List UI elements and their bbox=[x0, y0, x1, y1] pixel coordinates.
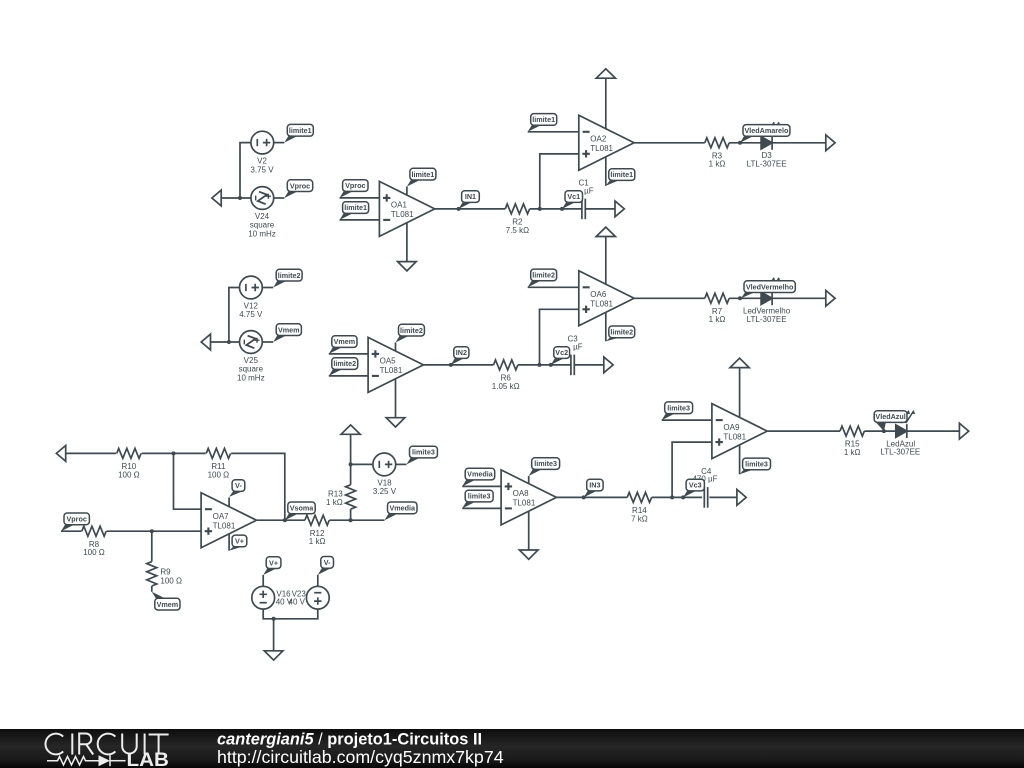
junction node R12/R13 bbox=[349, 518, 353, 522]
ground at OA5 bbox=[386, 418, 405, 427]
svg-text:Vc2: Vc2 bbox=[555, 348, 568, 357]
svg-text:V12: V12 bbox=[244, 302, 259, 311]
wire up to OA2 + input bbox=[540, 154, 579, 209]
wire R10 to R11 bbox=[142, 452, 206, 454]
wire V12 to limite2 flag bbox=[262, 287, 273, 289]
svg-text:100 Ω: 100 Ω bbox=[160, 577, 182, 586]
junction node R8/R9/OA7+ bbox=[150, 529, 154, 533]
svg-text:OA2: OA2 bbox=[590, 135, 607, 144]
ground at OA8 bbox=[519, 550, 538, 559]
wire R3 to D3 bbox=[729, 142, 761, 144]
wire from input port to sources junction (net Vproc/limite1 feed) bbox=[221, 197, 251, 199]
op-amp OA8 TL081 bbox=[501, 470, 556, 525]
net flag VledAzul bbox=[874, 411, 907, 431]
wire OA7 V+ power pin bbox=[228, 534, 230, 551]
svg-text:limite1: limite1 bbox=[412, 170, 435, 179]
capacitor C4 plates bbox=[704, 487, 707, 508]
svg-text:3.25 V: 3.25 V bbox=[373, 487, 397, 496]
svg-text:1.05 kΩ: 1.05 kΩ bbox=[492, 382, 520, 391]
square source V25 10 mHz bbox=[240, 331, 263, 354]
wire OA8 V+ pin bbox=[528, 476, 530, 483]
resistor R12 1 kOhm bbox=[305, 515, 329, 546]
svg-text:limite3: limite3 bbox=[468, 492, 491, 501]
wire up to OA9 + input bbox=[672, 442, 712, 497]
svg-text:limite3: limite3 bbox=[534, 459, 557, 468]
svg-text:Vproc: Vproc bbox=[345, 181, 365, 190]
CircuitLab logo resistor-diode glyph bbox=[47, 755, 126, 766]
net flag Vproc at OA1 + input bbox=[340, 180, 368, 198]
svg-text:R9: R9 bbox=[160, 567, 171, 576]
wire OA5 V- pin to ground bbox=[395, 379, 397, 418]
svg-text:40 V: 40 V bbox=[289, 598, 306, 607]
svg-text:VledAzul: VledAzul bbox=[875, 412, 905, 421]
VCC arrow at OA2 bbox=[596, 69, 615, 130]
svg-text:7 kΩ: 7 kΩ bbox=[631, 514, 648, 523]
svg-text:Vmedia: Vmedia bbox=[467, 470, 494, 479]
svg-text:µF: µF bbox=[584, 187, 594, 196]
svg-text:TL081: TL081 bbox=[590, 300, 613, 309]
svg-text:IN3: IN3 bbox=[589, 481, 600, 490]
net flag V- at OA7 top power pin bbox=[229, 480, 245, 497]
svg-text:OA5: OA5 bbox=[380, 357, 397, 366]
svg-text:Vmem: Vmem bbox=[278, 325, 300, 334]
svg-text:Vmem: Vmem bbox=[157, 600, 179, 609]
label V2 3.75 V bbox=[250, 157, 274, 175]
svg-text:OA9: OA9 bbox=[723, 423, 740, 432]
wire Vproc flag to R8 bbox=[61, 530, 82, 532]
voltage source V12 4.75 V bbox=[240, 276, 263, 299]
output port arrow after LedVermelho bbox=[826, 290, 835, 306]
wire OA7 V- power pin bbox=[228, 498, 230, 507]
wire OA2 V- pin bbox=[605, 157, 607, 186]
net flag limite2 at OA5 power pin bbox=[396, 324, 425, 342]
svg-text:Vsoma: Vsoma bbox=[290, 504, 315, 513]
resistor R11 100 Ohm bbox=[206, 448, 230, 479]
label V16 40 V bbox=[276, 589, 293, 606]
svg-text:cantergiani5 / projeto1-Circui: cantergiani5 / projeto1-Circuitos II bbox=[217, 730, 482, 748]
svg-text:limite1: limite1 bbox=[289, 126, 312, 135]
net flag V+ at V16 bbox=[263, 557, 281, 575]
ground at V16/V23 bbox=[264, 651, 283, 660]
wire R6 to C3 bbox=[518, 364, 571, 366]
svg-text:OA1: OA1 bbox=[391, 201, 408, 210]
net flag limite2 at OA6 power pin bbox=[606, 326, 635, 341]
svg-text:1 kΩ: 1 kΩ bbox=[844, 448, 861, 457]
junction node at VledAmarelo tap bbox=[738, 141, 742, 145]
CircuitLab logo wordmark CIRCUIT bbox=[45, 734, 168, 755]
wire OA1 V- pin to ground bbox=[406, 223, 408, 261]
wire R2 to C1 bbox=[530, 208, 582, 210]
VCC arrow above R13 bbox=[341, 425, 360, 465]
svg-text:limite1: limite1 bbox=[532, 115, 555, 124]
svg-text:VledAmarelo: VledAmarelo bbox=[744, 126, 789, 135]
voltage source V23 40 V bbox=[306, 586, 329, 609]
resistor R14 7 kOhm bbox=[627, 492, 651, 523]
net flag Vc3 bbox=[681, 479, 704, 499]
svg-text:TL081: TL081 bbox=[391, 210, 414, 219]
op-amp OA7 TL081 bbox=[201, 493, 256, 548]
wire R7 to LedVermelho bbox=[729, 297, 761, 299]
wire R8 to OA7 + input bbox=[107, 530, 202, 532]
net flag VledVermelho bbox=[741, 281, 795, 299]
svg-text:OA6: OA6 bbox=[590, 290, 607, 299]
svg-text:TL081: TL081 bbox=[213, 521, 236, 530]
svg-text:100 Ω: 100 Ω bbox=[83, 548, 105, 557]
net flag IN1 on OA1 output bbox=[457, 191, 480, 211]
wire D3 to output port bbox=[772, 142, 826, 144]
wire V25 to Vmem flag bbox=[262, 341, 273, 343]
net flag Vc1 bbox=[560, 191, 583, 211]
net flag Vmedia at OA8 + input bbox=[462, 468, 495, 486]
wire LedAzul to output port bbox=[907, 430, 960, 432]
wire junction up to V2 bbox=[240, 143, 251, 198]
wire R13 top lead bbox=[350, 464, 352, 484]
capacitor C1 1 uF bbox=[578, 179, 593, 220]
wire LedVermelho to output port bbox=[772, 297, 826, 299]
svg-text:100 Ω: 100 Ω bbox=[208, 470, 230, 479]
label V25 square 10 mHz bbox=[237, 356, 265, 382]
wire OA7 output to R12 bbox=[256, 519, 305, 521]
wire limite3 to OA9 - bbox=[662, 419, 712, 421]
wire R13 bottom lead bbox=[350, 509, 352, 520]
wire junction down to R9 bbox=[151, 531, 153, 561]
capacitor C3 1 uF bbox=[567, 335, 582, 376]
op-amp OA2 TL081 bbox=[579, 115, 634, 170]
CircuitLab logo wordmark LAB bbox=[127, 750, 170, 768]
VCC arrow at OA9 bbox=[730, 358, 749, 417]
junction node R2/C1/OA2+ bbox=[538, 207, 542, 211]
wire OA5 V+ pin bbox=[395, 343, 397, 351]
wire OA1 V+ pin bbox=[406, 187, 408, 195]
svg-text:Vproc: Vproc bbox=[290, 181, 310, 190]
wire limite3 to OA8 - bbox=[462, 507, 501, 509]
junction node at V2/V24 common bbox=[238, 196, 242, 200]
wire V18 to limite3 flag bbox=[396, 463, 407, 465]
resistor R9 100 Ohm bbox=[147, 562, 182, 586]
svg-text:4.75 V: 4.75 V bbox=[239, 310, 263, 319]
resistor R13 1 kOhm bbox=[326, 485, 356, 509]
output port arrow after C3 bbox=[604, 357, 613, 373]
footer url bbox=[217, 747, 504, 767]
net flag limite1 at OA1 - input bbox=[340, 202, 369, 220]
wire junction up to V12 bbox=[229, 288, 240, 343]
svg-text:3.75 V: 3.75 V bbox=[250, 165, 274, 174]
junction node R14/C4/OA9+ bbox=[670, 495, 674, 499]
svg-text:Vmedia: Vmedia bbox=[389, 504, 416, 513]
labels LedAzul LTL-307EE bbox=[880, 439, 920, 456]
svg-text:limite2: limite2 bbox=[610, 328, 633, 337]
wire limite2 to OA5 - bbox=[329, 375, 368, 377]
wire OA8 V- pin to ground bbox=[528, 512, 530, 550]
wire Vmedia to OA8 + bbox=[462, 485, 501, 487]
resistor R10 100 Ohm bbox=[117, 448, 141, 479]
junction node at VledVermelho tap bbox=[738, 296, 742, 300]
voltage source V18 3.25 V bbox=[373, 453, 396, 476]
net flag Vmem below R9 bbox=[152, 592, 180, 610]
svg-text:LTL-307EE: LTL-307EE bbox=[880, 448, 920, 457]
wire R14 to C4 bbox=[652, 496, 703, 498]
junction node R10/R11/OA7- bbox=[172, 451, 176, 455]
net flag limite1 at OA2 power pin bbox=[606, 169, 635, 186]
net flag Vc2 bbox=[549, 347, 570, 367]
resistor R7 1 kOhm bbox=[705, 293, 729, 324]
net flag V- at V23 bbox=[318, 557, 334, 575]
wire OA8 output to R14 bbox=[556, 496, 627, 498]
wire from input port to sources junction row2 bbox=[211, 341, 240, 343]
wire junction down to OA7 - input bbox=[174, 453, 202, 509]
input port arrow row3 (left) bbox=[56, 446, 65, 462]
svg-text:TL081: TL081 bbox=[590, 144, 613, 153]
feedback wire R11 to OA7 output bbox=[231, 453, 285, 520]
net flag limite1 at OA2 - input bbox=[528, 114, 557, 132]
svg-text:TL081: TL081 bbox=[380, 366, 403, 375]
svg-text:limite2: limite2 bbox=[532, 271, 555, 280]
LED LedVermelho LTL-307EE bbox=[743, 278, 791, 324]
wire OA1 output to R2 bbox=[435, 208, 506, 210]
label V18 3.25 V bbox=[373, 478, 397, 496]
wire Vproc to OA1 + bbox=[340, 197, 380, 199]
net flag Vmem at V25 bbox=[273, 324, 301, 342]
svg-text:LAB: LAB bbox=[127, 750, 170, 768]
input port arrow row2 (left) bbox=[201, 334, 210, 350]
wire OA2 output to R3 bbox=[634, 142, 705, 144]
svg-text:square: square bbox=[250, 221, 275, 230]
junction node Vsoma (output/feedback) bbox=[283, 518, 287, 522]
svg-text:V+: V+ bbox=[235, 537, 244, 546]
wire C1 to output port bbox=[585, 208, 615, 210]
svg-text:V+: V+ bbox=[269, 558, 278, 567]
svg-text:OA8: OA8 bbox=[513, 489, 530, 498]
svg-text:10 mHz: 10 mHz bbox=[237, 373, 265, 382]
net flag Vproc at R8 bbox=[61, 513, 89, 531]
svg-text:1 kΩ: 1 kΩ bbox=[309, 537, 326, 546]
net flag limite2 at OA6 - input bbox=[528, 269, 557, 287]
label V12 4.75 V bbox=[239, 302, 263, 320]
svg-text:V-: V- bbox=[324, 558, 331, 567]
junction node at VledAzul tap bbox=[882, 429, 886, 433]
resistor R3 1 kOhm bbox=[705, 138, 729, 169]
svg-text:http://circuitlab.com/cyq5znmx: http://circuitlab.com/cyq5znmx7kp74 bbox=[217, 747, 504, 767]
svg-text:Vproc: Vproc bbox=[67, 515, 87, 524]
svg-text:µF: µF bbox=[573, 343, 583, 352]
net flag limite1 at OA1 power pin bbox=[407, 168, 436, 186]
wire C4 to output port bbox=[709, 496, 737, 498]
wire R15 to LedAzul bbox=[864, 430, 895, 432]
wire V2 to limite1 flag bbox=[274, 142, 285, 144]
op-amp OA1 TL081 bbox=[379, 181, 434, 236]
junction node R6/C3/OA6+ bbox=[538, 363, 542, 367]
wire limite1 to OA1 - bbox=[340, 219, 380, 221]
op-amp OA5 TL081 bbox=[368, 337, 423, 392]
net flag limite2 at V12 bbox=[273, 269, 302, 287]
svg-text:V-: V- bbox=[235, 481, 242, 490]
wire R12 to Vmedia flag bbox=[329, 519, 384, 521]
wire OA9 V- pin bbox=[739, 445, 741, 475]
svg-text:10 mHz: 10 mHz bbox=[248, 229, 276, 238]
wire to ground of supplies bbox=[273, 619, 275, 651]
wire V16/V23 bottoms common bbox=[263, 609, 318, 619]
wire V23 to V- flag bbox=[317, 575, 319, 587]
svg-text:limite2: limite2 bbox=[400, 326, 423, 335]
net flag limite3 at OA9 power pin bbox=[740, 458, 771, 474]
output port arrow after D3 bbox=[826, 135, 835, 151]
label V23 40 V bbox=[289, 589, 307, 606]
footer bar bbox=[0, 729, 1024, 768]
wire OA5 output to R6 bbox=[423, 364, 493, 366]
net flag limite3 at V18 bbox=[407, 446, 438, 464]
svg-text:V18: V18 bbox=[377, 478, 392, 487]
wire C3 to output port bbox=[574, 364, 604, 366]
net flag limite3 at OA8 power pin bbox=[529, 458, 560, 476]
resistor R8 100 Ohm bbox=[82, 526, 106, 557]
svg-text:100 Ω: 100 Ω bbox=[118, 470, 140, 479]
svg-text:limite1: limite1 bbox=[610, 170, 633, 179]
net flag limite3 at OA8 - input bbox=[462, 490, 493, 508]
svg-text:LTL-307EE: LTL-307EE bbox=[747, 159, 787, 168]
svg-text:Vc1: Vc1 bbox=[567, 192, 580, 201]
svg-text:LTL-307EE: LTL-307EE bbox=[747, 315, 787, 324]
svg-text:OA7: OA7 bbox=[213, 512, 230, 521]
svg-text:square: square bbox=[239, 365, 264, 374]
wire V16 to V+ flag bbox=[262, 575, 264, 586]
svg-text:Vmem: Vmem bbox=[334, 337, 356, 346]
net flag Vproc at V24 bbox=[284, 180, 312, 198]
net flag Vsoma bbox=[285, 502, 315, 520]
wire OA9 output to R15 bbox=[768, 430, 841, 432]
net flag IN3 on OA8 output bbox=[582, 479, 603, 499]
wire up to OA6 + input bbox=[540, 309, 579, 365]
svg-text:limite3: limite3 bbox=[667, 403, 690, 412]
svg-text:limite2: limite2 bbox=[278, 271, 301, 280]
value label C4 470 uF bbox=[692, 467, 717, 483]
VCC arrow at OA6 bbox=[596, 227, 615, 285]
net flag V+ at OA7 bottom power pin bbox=[229, 535, 247, 551]
wire input port to R10 bbox=[66, 452, 116, 454]
svg-text:limite2: limite2 bbox=[333, 359, 356, 368]
wire junction to V18 bbox=[351, 463, 374, 465]
op-amp OA9 TL081 bbox=[712, 404, 767, 459]
junction node at supplies ground stem bbox=[272, 617, 276, 621]
wire limite1 to OA2 - bbox=[528, 131, 579, 133]
svg-text:V24: V24 bbox=[255, 212, 270, 221]
LED LedAzul LTL-307EE symbol bbox=[896, 411, 915, 439]
svg-text:TL081: TL081 bbox=[513, 499, 536, 508]
svg-text:1 kΩ: 1 kΩ bbox=[326, 498, 343, 507]
wire OA6 V- pin bbox=[605, 312, 607, 341]
net flag limite2 at OA5 - input bbox=[329, 358, 358, 376]
net flag limite1 at V2 bbox=[284, 124, 313, 142]
square source V24 10 mHz bbox=[251, 187, 274, 210]
net flag Vmem at OA5 + input bbox=[329, 336, 357, 354]
svg-text:Vc3: Vc3 bbox=[689, 481, 702, 490]
output port arrow after LedAzul bbox=[959, 423, 968, 439]
voltage source V2 3.75 V bbox=[251, 131, 274, 154]
wire V24 to Vproc flag bbox=[274, 197, 285, 199]
svg-text:1 kΩ: 1 kΩ bbox=[709, 160, 726, 169]
LED D3 LTL-307EE bbox=[747, 122, 787, 168]
svg-text:limite3: limite3 bbox=[412, 448, 435, 457]
voltage source V16 40 V bbox=[252, 586, 275, 609]
svg-text:TL081: TL081 bbox=[723, 432, 746, 441]
wire limite2 to OA6 - bbox=[528, 286, 579, 288]
op-amp OA6 TL081 bbox=[579, 271, 634, 326]
ground at OA1 bbox=[398, 262, 417, 271]
junction node at V12/V25 common bbox=[227, 340, 231, 344]
svg-text:1 kΩ: 1 kΩ bbox=[709, 315, 726, 324]
output port arrow after C4 bbox=[737, 490, 746, 506]
net flag Vmedia at R12 bbox=[385, 502, 418, 520]
svg-text:V2: V2 bbox=[257, 157, 267, 166]
svg-text:IN1: IN1 bbox=[465, 192, 476, 201]
input port arrow row1 (left) bbox=[212, 190, 221, 206]
svg-text:IN2: IN2 bbox=[456, 348, 467, 357]
label V24 square 10 mHz bbox=[248, 212, 276, 238]
wire OA6 output to R7 bbox=[634, 297, 705, 299]
svg-text:V25: V25 bbox=[244, 356, 259, 365]
svg-text:7.5 kΩ: 7.5 kΩ bbox=[506, 226, 529, 235]
net flag limite3 at OA9 - input bbox=[662, 402, 693, 420]
wire R9 to Vmem flag bbox=[151, 586, 153, 592]
wire Vmem to OA5 + bbox=[329, 353, 368, 355]
net flag VledAmarelo bbox=[740, 125, 790, 143]
resistor R2 7.5 kOhm bbox=[505, 204, 529, 235]
resistor R6 1.05 kOhm bbox=[492, 360, 520, 391]
resistor R15 1 kOhm bbox=[840, 426, 864, 457]
junction node R13/V18/VCC bbox=[349, 462, 353, 466]
svg-text:VledVermelho: VledVermelho bbox=[746, 282, 794, 291]
svg-text:limite1: limite1 bbox=[344, 203, 367, 212]
footer title cantergiani5 / projeto1-Circuitos II bbox=[217, 730, 482, 748]
output port arrow after C1 bbox=[615, 201, 624, 217]
svg-text:limite3: limite3 bbox=[745, 460, 768, 469]
net flag IN2 on OA5 output bbox=[449, 347, 469, 367]
